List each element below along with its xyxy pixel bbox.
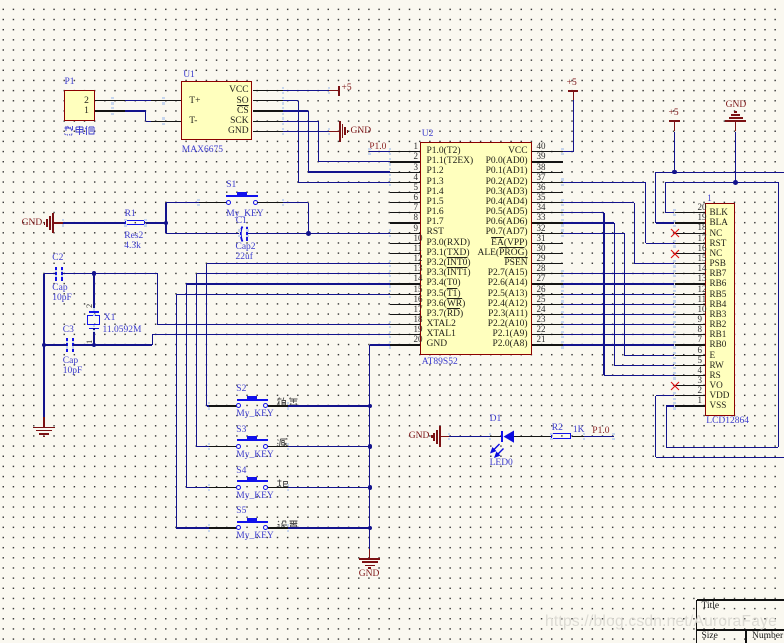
switch S4 My_KEY <box>186 487 209 488</box>
U2 pin 9 name RST <box>427 228 444 238</box>
wire GND to D1 <box>440 436 449 437</box>
R1 designator <box>125 210 136 220</box>
LCD pin 13 stub <box>675 283 706 284</box>
LCD pin 7 stub <box>675 344 706 345</box>
crystal X1 value 11.0592M <box>103 326 142 336</box>
U2 pin 40 name <box>508 147 528 157</box>
U2 pin 23 stub <box>532 324 563 325</box>
R1 value 4.3k <box>124 242 141 252</box>
U1 pin VCC <box>229 86 249 96</box>
wire S3 vertical to U2 <box>196 274 197 447</box>
LCD pin number 19 <box>698 213 707 222</box>
P1 pin 2 name <box>84 97 89 107</box>
S3 label chinese <box>277 438 288 447</box>
LCD pin 16 stub <box>675 253 706 254</box>
U2 pin 32 stub <box>532 233 563 234</box>
wire GND loop to LCD VSS <box>778 182 779 447</box>
U2 pin 10 name P3.0(RXD) <box>427 239 471 249</box>
S2 label chinese <box>277 397 299 406</box>
U2 pin 34 stub <box>532 212 563 213</box>
LCD pin number 2 <box>698 386 703 395</box>
wire S1 right vertical <box>308 203 309 234</box>
connection markers <box>111 97 114 99</box>
capacitor C2 designator <box>52 254 63 264</box>
capacitor C3 designator <box>63 326 74 336</box>
LCD pin 19 name BLA <box>710 218 728 227</box>
U2 pin number 9 <box>414 224 419 233</box>
LCD pin number 3 <box>698 376 703 385</box>
U2 pin 33 name <box>486 218 528 228</box>
U2 pin 31 stub <box>532 243 563 244</box>
U2 pin 33 stub <box>532 222 563 223</box>
wire GND column vertical <box>369 345 370 549</box>
wire C3 left <box>44 344 67 345</box>
LCD designator 1 <box>707 194 712 203</box>
U2 pin 22 stub <box>532 334 563 335</box>
U1 designator <box>183 71 195 81</box>
LED D1 <box>501 431 503 443</box>
U2 pin number 34 <box>537 203 546 212</box>
S5 label chinese <box>277 520 299 529</box>
U2 pin 30 name <box>477 249 527 259</box>
U1 pin SO <box>236 97 248 107</box>
no-connect X at LCD pin 16 <box>670 249 680 259</box>
U2 pin 23 name <box>488 320 528 330</box>
U2 pin 36 name <box>486 188 528 198</box>
junction on ground leg at C3 <box>42 343 47 348</box>
ground symbol bottom-left <box>33 427 55 429</box>
ground symbol bottom GND <box>359 558 380 560</box>
junction node C2/X1 <box>92 271 97 276</box>
U2 pin 25 name <box>488 300 528 310</box>
ground GND at U1 <box>339 121 341 141</box>
wire S4 to GND column <box>268 487 288 488</box>
LCD pin 14 stub <box>675 273 706 274</box>
U2 pin number 13 <box>414 264 423 273</box>
LCD pin 5 stub <box>675 365 706 366</box>
wire U2 pin34 to LCD RS <box>563 212 604 213</box>
LCD pin 18 stub <box>675 233 706 234</box>
wire U2 pin37 to LCD RST <box>563 182 646 183</box>
LCD pin number 5 <box>698 356 703 365</box>
LCD pin 19 stub <box>675 222 706 223</box>
wire ground leg left <box>43 274 44 417</box>
LCD pin number 7 <box>698 335 703 344</box>
S4 label chinese <box>277 479 288 488</box>
junction S5 at GND column <box>368 526 373 531</box>
wire U2 pin40 VCC to +5 <box>563 151 574 152</box>
U2 pin 30 stub <box>532 253 563 254</box>
power +5 at U1 VCC <box>338 86 340 96</box>
U2 pin number 6 <box>414 193 419 202</box>
U2 pin 13 stub <box>390 273 421 274</box>
U2 pin 15 stub <box>390 294 421 295</box>
wire R1 to node <box>146 222 166 223</box>
S4 designator <box>236 467 246 477</box>
U1 pin GND <box>228 127 249 137</box>
crystal X1 <box>93 274 94 312</box>
U2 pin number 16 <box>414 295 423 304</box>
LCD pin 15 name PSB <box>710 259 726 268</box>
U1 value MAX6675 <box>182 146 223 156</box>
U2 pin 34 name <box>486 208 528 218</box>
D1 value LED0 <box>490 459 513 469</box>
U2 pin 14 name P3.4(T0) <box>427 279 461 289</box>
wire U2 pin25 to LCD RB4 <box>563 304 675 305</box>
U2 pin number 8 <box>414 213 419 222</box>
LCD pin number 14 <box>698 264 707 273</box>
S5 value My_KEY <box>236 532 273 542</box>
U2 pin 8 name P1.7 <box>427 218 444 228</box>
wire S2 pin row <box>207 263 390 264</box>
U1 right pin stubs <box>253 90 284 91</box>
LCD pin 3 stub <box>675 385 706 386</box>
U2 pin 10 stub <box>390 243 421 244</box>
LCD pin number 15 <box>698 254 707 263</box>
ground GND at R1 <box>22 219 43 229</box>
wire S2 to GND column <box>268 405 288 406</box>
wire C2 right to node <box>62 273 94 274</box>
title block frame <box>697 599 784 601</box>
C1 value 22uf <box>236 253 253 263</box>
U2 pin 40 stub <box>532 151 563 152</box>
S1 designator <box>226 181 236 191</box>
crystal X1 pin 1 label <box>85 339 94 343</box>
LCD pin 9 stub <box>675 324 706 325</box>
LCD pin 13 name RB6 <box>710 279 727 288</box>
LCD pin 2 name VDD <box>710 391 730 400</box>
U2 pin 26 stub <box>532 294 563 295</box>
R2 value 1K <box>573 426 585 436</box>
U2 pin number 7 <box>414 203 419 212</box>
junction R1/S1 node <box>164 221 169 226</box>
U2 pin number 24 <box>537 305 546 314</box>
U2 pin 35 name <box>486 198 528 208</box>
wire +5 rail <box>656 172 784 173</box>
LCD pin number 16 <box>698 244 707 253</box>
switch S1 top wire right <box>257 202 283 203</box>
wire D1 to R2 <box>514 436 552 437</box>
microcontroller U2 AT89S52 body <box>420 142 532 356</box>
U2 pin number 20 <box>414 335 423 344</box>
capacitor C2 value Cap <box>52 284 67 294</box>
capacitor C3 value 10pF <box>63 367 83 377</box>
wire S5 to GND column <box>268 527 288 528</box>
U2 pin 17 name P3.7(RD) <box>427 310 464 320</box>
wire U1 SCK to U2 pin2 <box>283 121 319 122</box>
wire S1 bottom left segment <box>166 233 239 234</box>
switch S5 My_KEY <box>176 527 209 528</box>
U2 value AT89S52 <box>422 358 458 368</box>
U2 pin 3 name P1.2 <box>427 167 444 177</box>
U2 pin number 26 <box>537 285 546 294</box>
P1 designator <box>65 78 75 88</box>
switch S2 My_KEY <box>207 405 209 406</box>
wire U2 pin21 to LCD RB0 <box>563 344 675 345</box>
D1 designator <box>490 415 502 425</box>
wire U2 pin20 GND <box>370 344 390 345</box>
LCD pin 6 stub <box>675 355 706 356</box>
P1 label 热电偶 (thermocouple) <box>64 125 95 136</box>
capacitor C2 plates <box>55 267 57 281</box>
U2 pin 39 stub <box>532 161 563 162</box>
U2 pin 20 stub <box>390 344 421 345</box>
U2 pin number 17 <box>414 305 423 314</box>
title block Size text <box>702 632 718 642</box>
U2 pin number 11 <box>414 244 423 253</box>
wire +5 return to LCD VDD <box>656 457 784 458</box>
wire node XTAL2 run <box>94 273 158 274</box>
LCD pin 4 name RS <box>710 371 721 380</box>
LCD pin 20 stub <box>675 212 706 213</box>
U2 pin 16 name P3.6(WR) <box>427 300 466 310</box>
U2 pin 24 name <box>488 310 528 320</box>
LCD pin number 18 <box>698 223 707 232</box>
LCD pin number 10 <box>698 305 707 314</box>
U2 pin 29 stub <box>532 263 563 264</box>
junction S2 at GND column <box>368 404 373 409</box>
LCD pin 5 name RW <box>710 361 724 370</box>
LCD pin number 17 <box>698 234 707 243</box>
wire +5 to LCD BLA <box>655 172 656 223</box>
wire U2 pin23 to LCD RB2 <box>563 324 675 325</box>
LCD pin number 8 <box>698 325 703 334</box>
wire C3 right to node <box>73 344 94 345</box>
U2 pin 38 stub <box>532 172 563 173</box>
LCD pin 10 name RB3 <box>710 310 727 319</box>
U2 pin number 40 <box>537 142 546 151</box>
LED D1 arrows <box>489 443 506 461</box>
wire U2 pin26 to LCD RB5 <box>563 294 675 295</box>
U2 pin 35 stub <box>532 202 563 203</box>
U2 pin number 15 <box>414 285 423 294</box>
wire GND to R1 <box>53 222 63 223</box>
U2 pin number 10 <box>414 234 423 243</box>
watermark <box>545 614 777 630</box>
LCD pin 11 name RB4 <box>710 300 727 309</box>
LCD pin 2 stub <box>675 395 706 396</box>
C1 value Cap2 <box>236 243 256 253</box>
U2 pin number 30 <box>537 244 546 253</box>
wire S5 pin row <box>176 294 390 295</box>
U2 pin 19 name XTAL1 <box>427 330 456 340</box>
U2 pin number 4 <box>414 173 419 182</box>
LCD pin 9 name RB2 <box>710 320 727 329</box>
wire to U2 RST pin9 <box>308 233 389 234</box>
R2 designator <box>552 424 563 434</box>
U2 pin 16 stub <box>390 304 421 305</box>
U2 pin 2 name P1.1(T2EX) <box>427 157 474 167</box>
U2 pin 7 stub <box>390 212 421 213</box>
LCD pin 1 name VSS <box>710 401 727 410</box>
crystal X1 pin 2 label <box>85 304 94 308</box>
LCD pin 1 stub <box>675 405 706 406</box>
wire U2 pin1 P1.0 <box>369 151 389 152</box>
S4 value My_KEY <box>236 492 273 502</box>
U2 pin 9 stub <box>390 233 421 234</box>
LCD pin 17 stub <box>675 243 706 244</box>
no-connect X at LCD pin 3 <box>670 381 680 391</box>
U2 pin 13 name P3.3(INT1) <box>427 269 471 279</box>
switch S1 My_KEY <box>226 195 257 198</box>
wire P1 pin2 to U1 T+ <box>95 100 125 101</box>
op-amp U1 MAX6675 body <box>181 81 252 140</box>
junction +5 rail <box>672 170 677 175</box>
wire S3 pin row <box>197 273 390 274</box>
U2 pin 14 stub <box>390 283 421 284</box>
U2 pin 4 name P1.3 <box>427 178 444 188</box>
title block Title text <box>702 602 720 612</box>
U2 pin number 37 <box>537 173 546 182</box>
LCD pin 14 name RB7 <box>710 269 727 278</box>
LCD pin 12 name RB5 <box>710 290 727 299</box>
U2 pin 5 name P1.4 <box>427 188 444 198</box>
U2 pin 12 name P3.2(INT0) <box>427 259 471 269</box>
LCD pin 20 name BLK <box>710 208 728 217</box>
U2 pin 36 stub <box>532 192 563 193</box>
U2 pin 38 name <box>486 167 528 177</box>
LCD pin number 1 <box>698 396 703 405</box>
LCD pin 11 stub <box>675 304 706 305</box>
wire GND to LCD BLK <box>665 182 666 213</box>
U2 pin number 23 <box>537 315 546 324</box>
U2 pin number 31 <box>537 234 546 243</box>
wire S3 to GND column <box>268 446 288 447</box>
wire S1 left vertical <box>165 203 166 234</box>
wire GND rail <box>666 182 779 183</box>
U2 pin number 39 <box>537 152 546 161</box>
U2 pin 27 stub <box>532 283 563 284</box>
LCD pin 7 name RB0 <box>710 340 727 349</box>
U2 pin 18 name XTAL2 <box>427 320 456 330</box>
junction S4 at GND column <box>368 485 373 490</box>
LCD pin number 6 <box>698 346 703 355</box>
U2 pin 32 name <box>486 228 528 238</box>
wire P1 pin1 to U1 T- <box>95 110 125 111</box>
net label P1.0 at U2 pin 1 <box>369 143 386 153</box>
wire U1 GND to GND symbol <box>283 131 329 132</box>
wire U1 CS to U2 pin3 <box>283 110 308 111</box>
U2 pin 39 name <box>486 157 528 167</box>
U2 pin number 5 <box>414 183 419 192</box>
S2 value My_KEY <box>236 410 273 420</box>
wire U2 pin27 to LCD RB6 <box>563 283 675 284</box>
U2 pin number 1 <box>414 142 419 151</box>
U2 pin number 28 <box>537 264 546 273</box>
U2 pin 12 stub <box>390 263 421 264</box>
U2 pin 29 name <box>504 259 527 269</box>
U2 pin number 19 <box>414 325 423 334</box>
LCD pin number 20 <box>698 203 707 212</box>
wire S4 vertical to U2 <box>186 284 187 487</box>
U2 pin 24 stub <box>532 314 563 315</box>
U2 pin 15 name P3.5(T1) <box>427 290 461 300</box>
LCD pin 3 name VO <box>710 381 723 390</box>
power +5 above U2 <box>568 90 579 92</box>
ground GND above LCD <box>726 101 747 111</box>
U2 pin 8 stub <box>390 222 421 223</box>
LCD pin number 11 <box>698 295 707 304</box>
U2 pin 6 name P1.5 <box>427 198 444 208</box>
switch S3 My_KEY <box>197 446 209 447</box>
U2 pin 2 stub <box>390 161 421 162</box>
wire U2 pin24 to LCD RB3 <box>563 314 675 315</box>
connector P1 (thermocouple) <box>64 90 95 120</box>
wire S2 vertical to U2 <box>206 264 207 406</box>
U2 pin number 2 <box>414 152 419 161</box>
P1 pin 1 name <box>84 107 89 117</box>
U2 pin 21 stub <box>532 344 563 345</box>
U2 pin 28 stub <box>532 273 563 274</box>
wire GND down to rail <box>735 132 736 183</box>
wire +5 down to rail <box>674 132 675 173</box>
switch S1 top wire left <box>166 202 199 203</box>
junction GND rail <box>733 180 738 185</box>
U2 pin 11 name P3.1(TXD) <box>427 249 470 259</box>
no-connect X at LCD pin 18 <box>670 228 680 238</box>
wire S4 pin row <box>186 283 389 284</box>
wire U1 VCC to +5 <box>283 90 329 91</box>
junction node C3/X1 <box>92 343 97 348</box>
LCD pin 8 stub <box>675 334 706 335</box>
U2 pin 6 stub <box>390 202 421 203</box>
U2 pin number 18 <box>414 315 423 324</box>
U2 pin 1 name P1.0(T2) <box>427 147 461 157</box>
U2 pin number 38 <box>537 163 546 172</box>
wire U2 pin32 to LCD E <box>563 233 625 234</box>
title block Number text <box>752 632 783 642</box>
U2 pin number 33 <box>537 213 546 222</box>
S2 designator <box>236 385 246 395</box>
U2 pin 22 name <box>493 330 528 340</box>
U2 pin 4 stub <box>390 182 421 183</box>
capacitor C3 value Cap <box>63 357 78 367</box>
U1 pin T+ <box>189 97 200 107</box>
U2 pin 21 name <box>493 340 528 350</box>
U2 pin 37 name <box>486 178 528 188</box>
U2 pin 5 stub <box>390 192 421 193</box>
LCD pin 17 name RST <box>710 239 727 248</box>
wire U2 pin22 to LCD RB1 <box>563 334 675 335</box>
capacitor C3 plates <box>66 338 68 352</box>
U2 pin number 3 <box>414 163 419 172</box>
wire node XTAL1 run <box>94 344 152 345</box>
wire S5 vertical to U2 <box>176 294 177 528</box>
C1 designator <box>236 217 247 227</box>
LCD pin 10 stub <box>675 314 706 315</box>
wire C2 left <box>44 273 56 274</box>
power +5 above LCD <box>669 120 680 122</box>
U1 pin SCK <box>230 117 248 127</box>
net label P1.0 at R2 <box>592 427 609 437</box>
U2 pin 26 name <box>488 290 528 300</box>
U2 pin number 22 <box>537 325 546 334</box>
S3 designator <box>236 426 246 436</box>
U2 pin 7 name P1.6 <box>427 208 444 218</box>
U2 pin number 32 <box>537 224 546 233</box>
wire R2 to P1.0 <box>572 436 584 437</box>
U2 pin 27 name <box>488 279 528 289</box>
U2 designator <box>422 130 434 140</box>
resistor R2 <box>551 433 570 438</box>
junction S1 bottom to RST <box>306 231 311 236</box>
U2 pin 3 stub <box>390 172 421 173</box>
S3 value My_KEY <box>236 451 273 461</box>
junction S3 at GND column <box>368 444 373 449</box>
S5 designator <box>236 507 246 517</box>
LCD pin 6 name E <box>710 351 716 360</box>
LCD pin number 13 <box>698 274 707 283</box>
